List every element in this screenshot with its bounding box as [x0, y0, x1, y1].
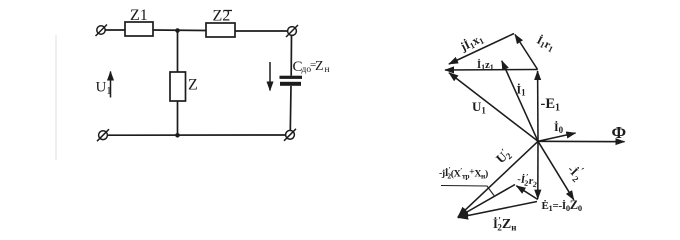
vector U'2	[458, 141, 538, 217]
faint scan streak	[55, 35, 57, 160]
resistor Z1	[125, 22, 153, 36]
vector I0	[538, 133, 576, 141]
terminal top-right	[286, 25, 298, 37]
svg-text:İ1z1: İ1z1	[477, 59, 494, 72]
svg-text:-jİ′2(X′тр+Xн): -jİ′2(X′тр+Xн)	[439, 165, 488, 181]
vector -E1	[537, 71, 539, 141]
label -jI'2(Xtr+Xn)	[439, 165, 494, 196]
phasor: axis F	[538, 140, 625, 142]
svg-text:İ′2Zн: İ′2Zн	[493, 216, 516, 233]
label Z	[188, 77, 198, 94]
label I1z1	[477, 59, 494, 72]
label U'2	[492, 145, 514, 167]
wire middle branch upper	[177, 31, 179, 73]
svg-text:-E1: -E1	[541, 96, 561, 114]
svg-text:Ф: Ф	[612, 123, 627, 142]
label -I'2r2	[516, 171, 538, 189]
terminal bottom-right	[284, 129, 296, 141]
label I'2Zn	[493, 216, 516, 233]
label F	[612, 123, 627, 142]
svg-text:İ1r1: İ1r1	[534, 33, 557, 55]
vector I'2Zn	[458, 202, 537, 218]
svg-text:Z1: Z1	[130, 7, 148, 24]
bottom wire	[107, 134, 285, 136]
vector -jI'2(xtr+xn)	[458, 185, 515, 218]
label U1	[96, 80, 112, 98]
label I0	[554, 120, 564, 135]
vector E1 (down)	[537, 141, 539, 199]
vector U1	[449, 73, 538, 142]
label -E1	[541, 96, 561, 114]
label U1 phasor	[472, 99, 486, 116]
wire top-left to Z1	[105, 29, 125, 31]
svg-text:-İ2: -İ2	[563, 162, 585, 184]
vector jI1x1	[449, 34, 514, 65]
capacitor Cdo bottom plate	[280, 82, 301, 86]
svg-text:İ0: İ0	[554, 120, 564, 135]
vector -I'2	[538, 141, 574, 200]
arrow load current	[269, 62, 271, 91]
capacitor Cdo top plate	[280, 76, 303, 79]
vector I1	[502, 61, 538, 142]
svg-text:İ1: İ1	[517, 83, 527, 98]
resistor Z2	[206, 23, 235, 37]
label -I'2	[563, 160, 588, 185]
svg-text:U1: U1	[96, 80, 112, 98]
label I1	[517, 83, 527, 98]
svg-text:Z: Z	[315, 59, 324, 74]
wire right vertical upper	[290, 35, 292, 75]
svg-text:U′2: U′2	[492, 145, 514, 167]
svg-text:jİ1x1: jİ1x1	[457, 31, 485, 55]
label I1r1	[534, 33, 557, 55]
wire right vertical lower	[289, 86, 292, 131]
label Cdo=Zn	[293, 59, 330, 75]
wire Z2 to top-right terminal	[235, 30, 288, 32]
svg-text:Z: Z	[188, 77, 198, 94]
junction node bottom	[175, 133, 180, 138]
wire Z1 to Z2	[153, 29, 206, 32]
junction node top	[175, 28, 180, 33]
arrow U1	[110, 72, 112, 98]
label jI1x1	[457, 31, 485, 55]
vector I1r1	[515, 35, 538, 70]
vector I1z1	[445, 69, 538, 72]
label Z2	[213, 8, 233, 25]
svg-text:Ė1=-İ0Z0: Ė1=-İ0Z0	[542, 198, 582, 213]
label E1=-I0Z0	[542, 198, 582, 213]
terminal bottom-left	[97, 129, 109, 141]
wire middle branch lower	[177, 101, 179, 135]
terminal top-left	[96, 25, 108, 37]
label Z1	[130, 7, 148, 24]
svg-text:н: н	[325, 65, 330, 75]
impedance Z box	[170, 72, 186, 101]
svg-text:-İ′2r2: -İ′2r2	[516, 171, 538, 189]
vector -I'2r2	[516, 186, 537, 200]
svg-text:U1: U1	[472, 99, 486, 116]
